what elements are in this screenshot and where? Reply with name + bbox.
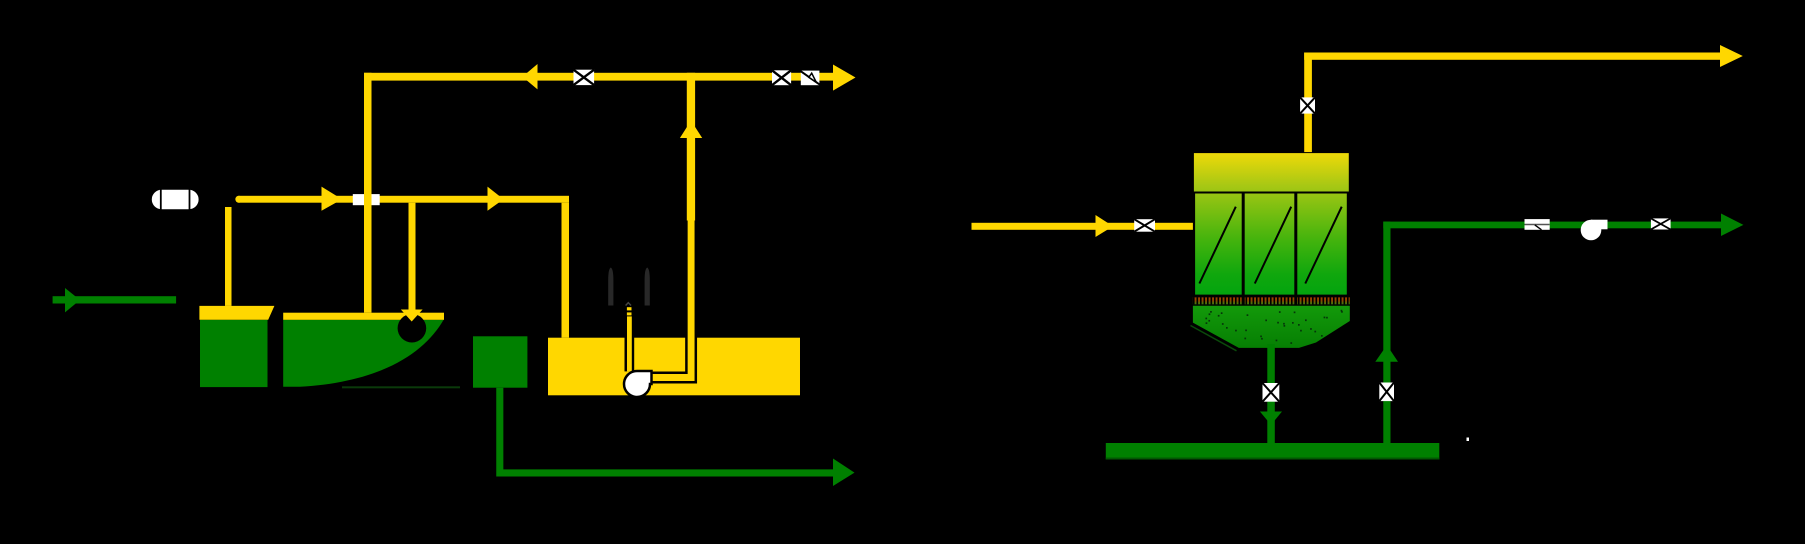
arrow on mid pipe 2	[488, 187, 504, 211]
tank T2 inlet notch (black circle)	[398, 314, 427, 343]
scrubber column divider 1	[1242, 193, 1245, 296]
wire: tank T1 gas riser	[225, 207, 232, 306]
valve V6 on drain	[1263, 383, 1280, 402]
scrubber top box	[1193, 152, 1350, 192]
check valve V3 on top line right	[800, 71, 820, 86]
diagonal in column 3	[1305, 207, 1341, 284]
wire: top gas line	[364, 73, 833, 81]
arrow on mid pipe 1	[322, 187, 343, 211]
gas capsule vessel	[151, 189, 199, 210]
arrow up on riser	[680, 121, 702, 138]
wire: branch pipe down into tank T2 notch	[409, 203, 416, 311]
wire: hopper drain pipe	[1267, 344, 1275, 443]
wire: vertical pipe from top line down to tank T2	[364, 73, 372, 313]
chevron arrow into tank T2	[401, 310, 423, 322]
outlined suction pipe from pump up to nozzle	[625, 316, 635, 371]
valve V5 on top gas pipe	[1300, 97, 1315, 113]
pump P2 on green line	[1581, 220, 1602, 241]
wire: top right gas line	[1304, 53, 1720, 60]
dark sludge line under tank T2	[342, 386, 460, 388]
arrow on top line (left-pointing)	[522, 64, 537, 89]
hopper bottom	[1193, 306, 1350, 348]
arrow at end of right green line	[1721, 214, 1743, 237]
flare pillar right	[645, 268, 650, 306]
up arrow on right riser	[1375, 345, 1398, 362]
arrow at end of green drain	[833, 459, 855, 487]
valve V4 on scrubber inlet	[1134, 219, 1155, 232]
bottom green basin	[1106, 443, 1440, 460]
tank T1 lid	[199, 306, 274, 320]
tank T2 lid	[283, 313, 444, 320]
diagonal in column 2	[1255, 207, 1291, 284]
arrow on scrubber inlet	[1096, 215, 1114, 237]
scrubber column divider 2	[1294, 193, 1297, 296]
down arrow on drain	[1260, 412, 1282, 425]
wire: pipe down to gas-holder basin	[562, 203, 570, 338]
hopper shadow diagonal	[1191, 326, 1237, 351]
pipe crossing break (white)	[353, 194, 380, 205]
hopper speckles	[1205, 310, 1342, 344]
wire: yellow inlet to scrubber	[972, 223, 1193, 230]
flare chevron	[626, 303, 631, 306]
valve V9 on green line	[1651, 218, 1671, 229]
pump station green box	[473, 336, 527, 387]
wire: mid gas pipe horizontal	[235, 196, 242, 203]
diagonal in column 1	[1199, 207, 1235, 284]
arrow at right end of top line	[833, 65, 856, 91]
stray white dot	[1467, 438, 1470, 442]
wire: scrubber top gas pipe	[1304, 53, 1312, 153]
wire: right riser green	[1383, 222, 1390, 443]
outlined elbow pipe inside basin	[648, 221, 691, 378]
wire: right green discharge line	[1383, 222, 1722, 229]
tank T2 body (curved scoop)	[283, 320, 443, 387]
arrow at end of top right line	[1720, 45, 1743, 67]
scrubber columns block	[1194, 193, 1348, 296]
tank T1 body	[200, 320, 268, 387]
gas holder basin (yellow)	[548, 338, 800, 396]
nozzle dashes	[627, 307, 632, 310]
arrow on green inlet	[65, 288, 80, 312]
flare pillar left	[608, 268, 613, 306]
valve V2 on top line right	[772, 70, 791, 85]
valve V7 on right riser	[1379, 383, 1394, 402]
check valve V8 on green line	[1525, 219, 1550, 230]
valve V1 on top line	[574, 70, 595, 85]
wire: green inlet line left	[53, 296, 177, 303]
pump P1 in basin	[624, 371, 652, 397]
grate band	[1193, 297, 1350, 304]
wire: riser from basin to top line (plain section)	[687, 73, 695, 221]
wire: green drain line from box	[500, 388, 834, 473]
